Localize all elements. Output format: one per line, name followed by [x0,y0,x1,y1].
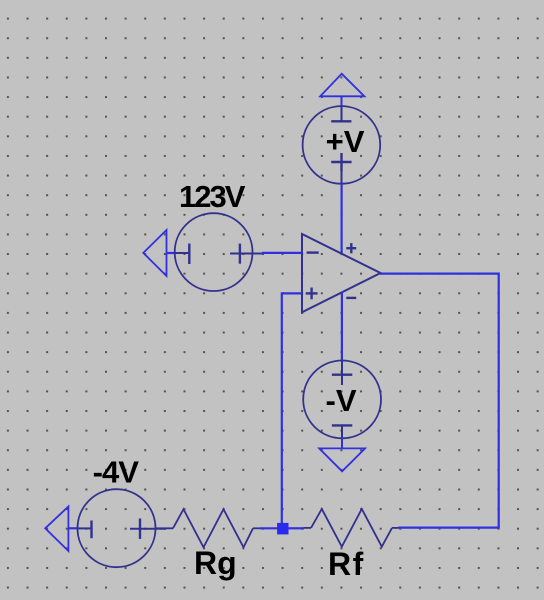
wire op-amp V- to -V source [341,292,343,360]
ground arrow left (-4V) [45,507,68,552]
svg-text:123V: 123V [179,179,246,214]
wire stem arrow to -4V source [68,527,77,529]
ground arrow left (123V) [143,230,166,276]
wire junction to Rf [289,527,305,529]
op-amp inverting input mark [307,251,319,253]
svg-text:Rf: Rf [328,546,365,582]
wire feedback bottom horizontal [399,526,500,528]
op-amp non-inverting input mark [306,288,318,300]
resistor Rf [304,509,399,547]
power arrow up (+V rail) [320,74,364,97]
wire 123V to op-amp inverting input [262,252,302,254]
power arrow down (-V rail) [319,448,365,471]
op-amp positive supply mark [346,243,356,253]
svg-text:-4V: -4V [93,455,140,490]
svg-text:+V: +V [326,124,365,159]
svg-text:-V: -V [326,383,357,418]
wire stem arrow to +V source [341,96,343,106]
wire non-inverting input down to junction [281,292,283,528]
wire feedback right vertical [498,273,500,528]
resistor Rg [156,509,262,547]
op-amp U1 [302,234,381,312]
voltage source -V [303,361,381,439]
op-amp negative supply mark [346,297,356,299]
wire op-amp non-inverting input horizontal [282,292,302,294]
wire Rg to junction [260,527,278,529]
svg-text:Rg: Rg [194,545,237,581]
wire +V source to op-amp V+ [341,184,343,254]
voltage source +V [303,106,381,184]
wire stem arrow to 123V source [167,252,176,254]
junction node [277,523,288,535]
voltage source 123V [175,213,263,291]
wire stem -V source to down arrow [341,438,343,448]
wire op-amp output [381,273,499,275]
voltage source -4V [78,489,167,567]
